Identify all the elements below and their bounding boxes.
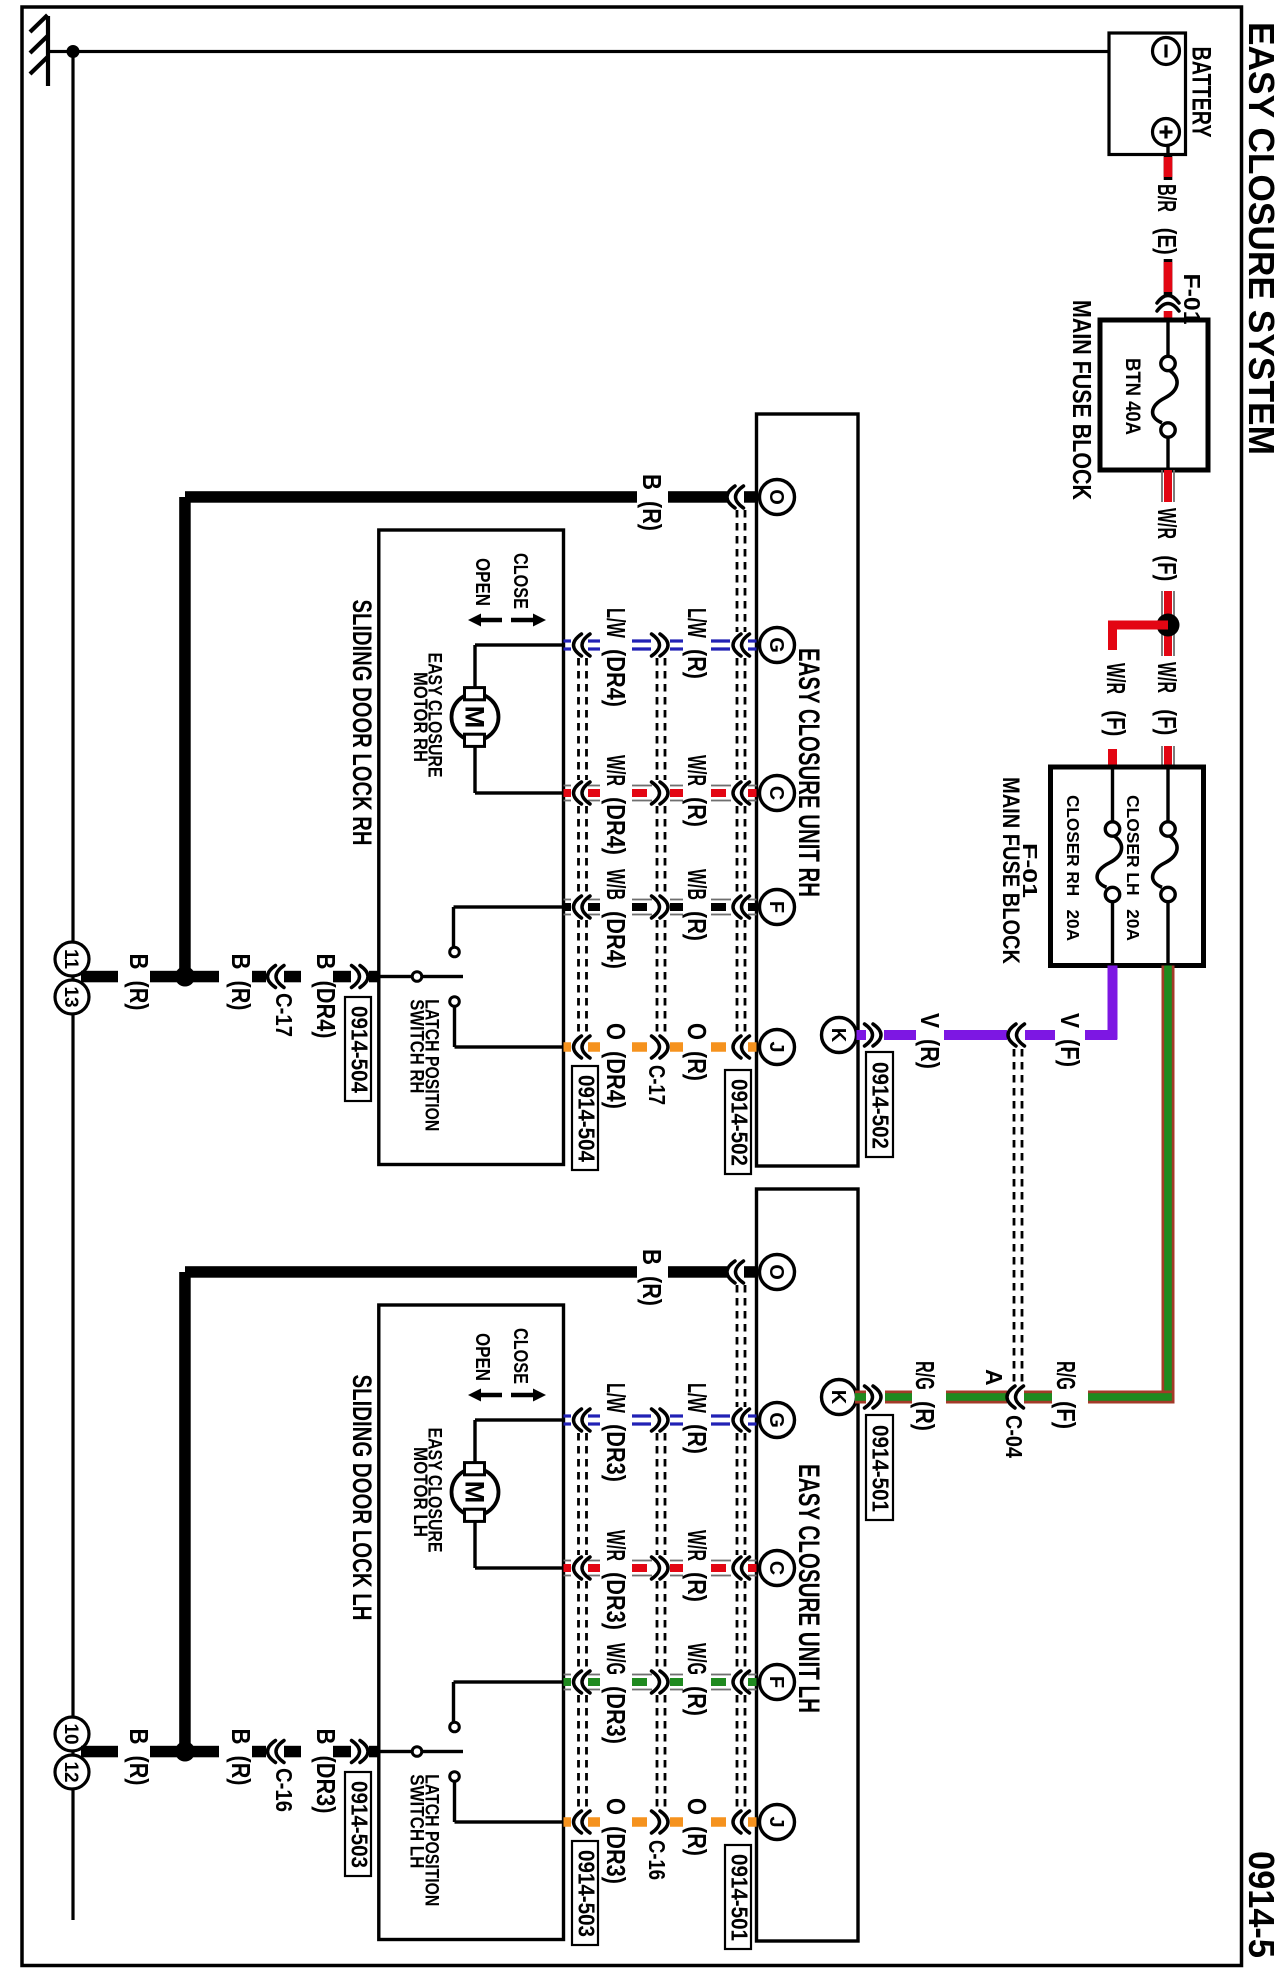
svg-text:O: O [765,489,787,505]
svg-text:C: C [765,1561,787,1575]
terminal 11 [55,942,89,976]
svg-text:L/W: L/W [682,1383,712,1413]
easy closure unit box RH [757,414,859,1166]
svg-text:W/B: W/B [601,869,631,900]
svg-text:L/W: L/W [682,608,712,638]
svg-text:(R): (R) [637,1276,667,1306]
svg-text:MOTOR RH: MOTOR RH [409,672,430,762]
svg-text:C-17: C-17 [644,1065,670,1105]
svg-text:F: F [765,1676,787,1688]
connector dashed line 0914-504 at lock RH [577,658,580,780]
svg-text:(R): (R) [124,981,154,1011]
connector C-04 chevron on R/G wire [1007,1386,1024,1408]
connector dashed line 0914-503 at lock LH [577,1433,580,1555]
svg-text:(R): (R) [910,1401,940,1431]
fuse BTN 40A [1166,322,1169,356]
connector chevron V at unit K [865,1024,882,1046]
svg-text:O: O [682,1023,712,1040]
svg-text:K: K [827,1028,849,1043]
svg-text:13: 13 [60,986,81,1007]
connector dashed line C-17 middle RH [656,658,659,780]
latch position switch LH lower lead [453,1782,456,1823]
fuse block F-01 lower (MAIN FUSE BLOCK) [1051,767,1204,966]
sliding door lock box LH [379,1305,564,1940]
svg-text:B/R: B/R [1152,184,1182,212]
svg-text:(R): (R) [682,911,712,941]
id box 0914-503 left LH [345,1772,371,1876]
svg-text:(R): (R) [682,797,712,827]
wire W/G row F LH [564,1674,572,1676]
svg-text:W/R: W/R [682,1530,712,1561]
chevrons row F RH [574,896,591,918]
connector chevron at pin O LH [727,1261,744,1283]
chevrons row C LH [574,1557,591,1579]
wire B row LH [81,1746,118,1758]
svg-text:SWITCH LH: SWITCH LH [406,1774,427,1868]
pin K LH [822,1380,857,1415]
node B junction RH [175,967,195,987]
latch switch pivot LH [379,1750,412,1753]
svg-text:K: K [827,1390,849,1405]
svg-text:12: 12 [60,1761,81,1782]
connector dashed line 0914-501 at unit LH [736,1285,739,1407]
svg-text:J: J [765,1816,787,1827]
svg-text:(R): (R) [682,1572,712,1602]
svg-text:CLOSER LH 20A: CLOSER LH 20A [1123,795,1143,941]
svg-text:W/B: W/B [682,869,712,900]
wire ground to battery [48,50,1109,53]
svg-text:G: G [765,1412,787,1428]
sliding door lock box RH [379,530,564,1165]
battery B1 [1109,33,1186,155]
wire B(R) thick to pin O LH [185,1266,637,1278]
svg-text:(F): (F) [1152,555,1182,581]
svg-text:(F): (F) [1055,1039,1085,1067]
svg-text:OPEN: OPEN [471,558,493,606]
chevrons row F LH [574,1671,591,1693]
id box 0914-502 right of unit RH [866,1052,893,1157]
latch position switch RH lower lead [453,1007,456,1048]
wire L/W row G LH [564,1414,572,1417]
svg-text:(DR3): (DR3) [601,1424,631,1482]
svg-text:W/R: W/R [1152,508,1182,539]
svg-text:B: B [637,1249,667,1265]
svg-text:O: O [765,1264,787,1280]
svg-text:W/G: W/G [682,1643,712,1675]
svg-text:C: C [765,786,787,800]
wire W/R row C RH [564,785,572,787]
connector dashed line 0914-502 at unit RH [736,510,739,632]
pin J LH [760,1805,795,1840]
svg-text:C-17: C-17 [271,993,297,1037]
svg-text:CLOSE: CLOSE [509,553,531,609]
svg-text:MOTOR LH: MOTOR LH [409,1447,430,1537]
svg-text:(R): (R) [915,1039,945,1069]
node B junction LH [175,1742,195,1762]
connector chevron R/G at unit K [865,1386,882,1408]
connector C-04 chevron on V wire [1008,1024,1025,1046]
id box 0914-502 left RH [725,1070,751,1174]
svg-text:0914-502: 0914-502 [727,1079,753,1166]
chevrons row C RH [574,782,591,804]
wire L/W row G RH [564,639,572,642]
svg-text:C-16: C-16 [271,1768,297,1812]
svg-text:0914-502: 0914-502 [868,1062,894,1149]
svg-text:BATTERY: BATTERY [1187,47,1217,138]
chevrons row G RH [574,634,591,656]
svg-text:EASY CLOSURE UNIT RH: EASY CLOSURE UNIT RH [792,648,825,897]
svg-text:G: G [765,637,787,653]
battery minus terminal [1153,38,1180,65]
svg-text:SWITCH RH: SWITCH RH [406,999,427,1093]
wire B(R) thick to pin O RH [185,491,637,503]
pin G RH [760,628,795,663]
svg-text:(R): (R) [682,1686,712,1716]
svg-text:M: M [460,1481,490,1504]
svg-text:W/R: W/R [601,755,631,786]
wire B/R battery to fuse block [1166,146,1169,159]
svg-text:BTN 40A: BTN 40A [1121,358,1144,435]
wire ground bus vertical [71,52,74,1921]
svg-text:B: B [226,1729,256,1745]
svg-text:B: B [124,954,154,970]
pin O LH [760,1255,795,1290]
latch position switch LH upper lead [454,1680,564,1683]
pin J RH [760,1030,795,1065]
svg-text:(R): (R) [682,1051,712,1081]
id box 0914-501 left LH [725,1845,751,1949]
latch switch upper contact LH [450,1722,460,1732]
svg-text:SLIDING DOOR LOCK RH: SLIDING DOOR LOCK RH [347,600,377,846]
terminal 13 [55,980,89,1014]
terminal 12 [55,1755,89,1789]
svg-text:(F): (F) [1152,709,1182,735]
svg-text:V: V [915,1013,945,1029]
wire W/R branch to left fuse [1108,621,1168,630]
svg-text:(F): (F) [1101,710,1131,736]
svg-text:CLOSER RH 20A: CLOSER RH 20A [1063,795,1083,941]
svg-text:MAIN FUSE BLOCK: MAIN FUSE BLOCK [997,777,1024,965]
wire B row RH [81,971,118,983]
svg-text:(DR4): (DR4) [601,1051,631,1109]
svg-text:0914-5: 0914-5 [1241,1851,1281,1958]
chevrons row J LH [574,1811,591,1833]
pin C LH [760,1551,795,1586]
svg-text:B: B [124,1729,154,1745]
easy closure unit box LH [757,1189,859,1941]
battery plus terminal [1153,119,1180,146]
svg-text:MAIN FUSE BLOCK: MAIN FUSE BLOCK [1067,300,1097,500]
wire O row J LH [564,1817,572,1827]
pin O RH [760,480,795,515]
connector chevron at lock box RH [352,966,369,988]
id box 0914-501 right of unit LH [866,1415,893,1520]
pin K RH [822,1018,857,1053]
latch position switch RH upper lead [454,905,564,908]
easy closure motor LH [452,1469,499,1516]
connector C-17 chevron B row RH [268,966,285,988]
svg-text:W/G: W/G [601,1643,631,1675]
svg-text:V: V [1055,1013,1085,1029]
svg-text:O: O [601,1798,631,1815]
latch switch pivot RH [379,975,412,978]
ground [46,16,50,86]
svg-text:(DR4): (DR4) [601,797,631,855]
svg-text:(R): (R) [226,1756,256,1786]
svg-text:F: F [765,901,787,913]
svg-text:W/R: W/R [1101,663,1131,694]
svg-text:11: 11 [60,949,81,970]
svg-text:SLIDING DOOR LOCK LH: SLIDING DOOR LOCK LH [347,1375,377,1621]
arrow open/close RH [468,614,502,627]
svg-text:C-16: C-16 [644,1840,670,1880]
svg-text:(DR3): (DR3) [601,1826,631,1884]
svg-text:B: B [311,1729,341,1745]
svg-text:B: B [311,954,341,970]
svg-text:(R): (R) [682,1826,712,1856]
svg-text:(DR4): (DR4) [601,649,631,707]
svg-text:O: O [682,1798,712,1815]
svg-text:L/W: L/W [601,608,631,638]
id box 0914-504 left RH [345,997,371,1101]
svg-text:CLOSE: CLOSE [509,1328,531,1384]
svg-text:F-01: F-01 [1179,274,1205,325]
svg-text:R/G: R/G [910,1361,940,1390]
fuse block F-01 upper (MAIN FUSE BLOCK) [1100,320,1208,470]
svg-text:EASY CLOSURE SYSTEM: EASY CLOSURE SYSTEM [1241,22,1281,455]
svg-text:0914-504: 0914-504 [574,1075,600,1162]
svg-text:C-04: C-04 [1001,1415,1027,1458]
connector dashed line C-16 middle LH [656,1433,659,1555]
svg-text:(R): (R) [682,649,712,679]
wire W/R row C LH [564,1560,572,1562]
svg-text:B: B [226,954,256,970]
connector C-16 chevron B row LH [268,1741,285,1763]
wire O row J RH [564,1042,572,1052]
svg-text:0914-501: 0914-501 [868,1425,894,1512]
wire B(R) vertical LH [179,1272,191,1752]
svg-text:(F): (F) [1051,1401,1081,1429]
wire W/B row F RH [564,899,572,901]
node ground junction [67,45,80,58]
wire R/G from CLOSER LH fuse [1162,966,1175,1404]
svg-text:0914-503: 0914-503 [347,1781,373,1868]
svg-text:(R): (R) [226,981,256,1011]
latch switch upper contact RH [450,947,460,957]
svg-text:(R): (R) [682,1424,712,1454]
wire B(R) vertical RH [179,497,191,977]
svg-text:R/G: R/G [1051,1361,1081,1390]
easy closure motor LH leads [475,1418,564,1421]
svg-text:(DR4): (DR4) [311,981,341,1039]
svg-text:A: A [981,1369,1007,1386]
id box 0914-504 right RH [572,1066,598,1170]
svg-text:(E): (E) [1152,228,1182,255]
svg-text:0914-503: 0914-503 [574,1850,600,1937]
id box 0914-503 right LH [572,1841,598,1945]
svg-text:(R): (R) [637,501,667,531]
svg-text:W/R: W/R [682,755,712,786]
svg-text:O: O [601,1023,631,1040]
connector C-04 dashed line [1013,1049,1016,1383]
latch switch lower contact LH [450,1772,460,1782]
svg-text:(DR3): (DR3) [601,1572,631,1630]
svg-text:(DR4): (DR4) [601,911,631,969]
svg-text:10: 10 [60,1723,81,1744]
svg-text:EASY CLOSURE UNIT LH: EASY CLOSURE UNIT LH [792,1464,825,1713]
fuse CLOSER RH 20A [1111,770,1114,823]
svg-text:L/W: L/W [601,1383,631,1413]
easy closure motor RH [452,694,499,741]
connector chevron at pin O RH [727,486,744,508]
easy closure motor RH leads [475,643,564,646]
chevrons row J RH [574,1036,591,1058]
connector chevron at lock box LH [352,1741,369,1763]
svg-text:0914-504: 0914-504 [347,1006,373,1093]
svg-text:0914-501: 0914-501 [727,1854,753,1941]
svg-text:M: M [460,706,490,729]
node W/R junction [1157,614,1180,637]
svg-text:B: B [637,474,667,490]
pin G LH [760,1403,795,1438]
connector F-01 chevron [1157,296,1179,312]
svg-text:OPEN: OPEN [471,1333,493,1381]
svg-text:W/R: W/R [601,1530,631,1561]
pin F LH [760,1665,795,1700]
svg-text:(R): (R) [124,1756,154,1786]
pin C RH [760,776,795,811]
arrow open/close LH [468,1389,502,1402]
chevrons row G LH [574,1409,591,1431]
pin F RH [760,890,795,925]
svg-text:(DR3): (DR3) [601,1686,631,1744]
wire W/R fuse to junction [1161,470,1163,502]
latch switch lower contact RH [450,997,460,1007]
wire V violet from CLOSER RH fuse [1108,966,1118,1040]
fuse CLOSER LH 20A [1166,770,1169,823]
svg-text:(DR3): (DR3) [311,1756,341,1814]
svg-text:J: J [765,1041,787,1052]
svg-text:W/R: W/R [1152,662,1182,693]
terminal 10 [55,1717,89,1751]
